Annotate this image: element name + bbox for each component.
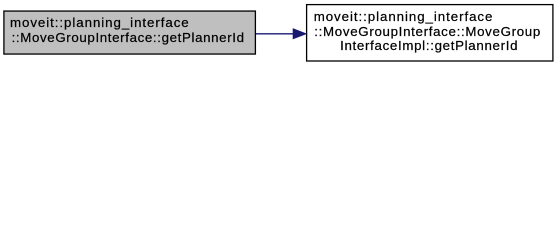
svg-text:moveit::planning_interface: moveit::planning_interface <box>10 15 189 30</box>
svg-text:::MoveGroupInterface::MoveGrou: ::MoveGroupInterface::MoveGroup <box>314 24 540 39</box>
edge: call arrow <box>256 29 306 39</box>
wire <box>256 33 294 35</box>
svg-text:::MoveGroupInterface::getPlann: ::MoveGroupInterface::getPlannerId <box>12 30 244 45</box>
svg-text:moveit::planning_interface: moveit::planning_interface <box>314 9 493 24</box>
arrowhead <box>293 29 306 39</box>
node: moveit::planning_interface::MoveGroupInterface::MoveGroupInterfaceImpl::getPlannerId <box>307 5 553 61</box>
svg-text:InterfaceImpl::getPlannerId: InterfaceImpl::getPlannerId <box>340 38 517 53</box>
node: moveit::planning_interface::MoveGroupInterface::getPlannerId (current, grey) <box>4 11 256 54</box>
